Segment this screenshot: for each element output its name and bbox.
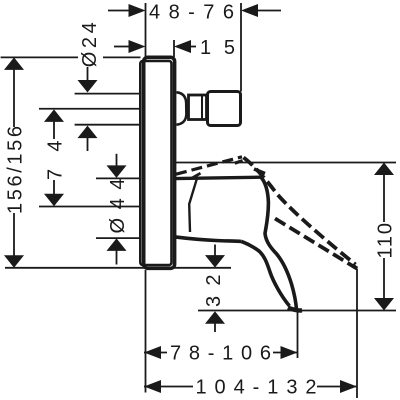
extension line 48-76 right (to cylinder top)	[240, 3, 242, 92]
svg-text:74: 74	[44, 141, 66, 181]
handle outer right edge sweeping to tip	[261, 177, 297, 309]
dashed handle (raised position)	[176, 157, 357, 269]
arrowheads 15	[129, 40, 192, 53]
extension line Ø24 bottom	[75, 124, 141, 126]
arrowheads 32	[205, 255, 225, 324]
extension line plate top to 156/156	[1, 56, 141, 58]
extension line bottom left (78-106 / 104-132)	[145, 270, 147, 393]
arrowheads Ø24	[78, 80, 98, 138]
handle bottom edge	[174, 237, 242, 242]
extension line 78-106 right	[297, 311, 299, 358]
dashed lever rising top edge	[176, 157, 242, 174]
spindle collar line	[201, 96, 203, 119]
stray dash at handle pivot	[192, 173, 201, 178]
stems 32	[214, 245, 216, 333]
stems 156/156	[13, 69, 15, 257]
dashed lever rising lower dash	[235, 161, 243, 164]
extension line 110 top	[176, 162, 396, 164]
svg-text:Ø44: Ø44	[107, 179, 129, 234]
svg-text:110: 110	[374, 223, 396, 259]
handle neck left edge	[189, 178, 197, 232]
dashed lever lower blade edge	[275, 219, 356, 269]
spindle big cylinder	[208, 92, 241, 126]
dimension line 104-132	[144, 386, 357, 388]
arrowheads 78-106	[144, 346, 298, 359]
extension line Ø24 top	[75, 93, 141, 95]
stems 74	[53, 120, 55, 196]
escutcheon back flange	[140, 61, 171, 265]
extension line 110 bottom / handle tip level	[198, 310, 396, 312]
dashed lever short dash at pivot	[254, 169, 265, 174]
arrowheads 74	[44, 109, 64, 206]
dashed lever tip	[353, 266, 358, 269]
svg-text:Ø24: Ø24	[79, 22, 101, 67]
handle neck	[174, 177, 302, 310]
extension line 48-76 left / plate back	[145, 3, 147, 57]
svg-text:156/156: 156/156	[4, 126, 26, 214]
arrowheads 156/156	[4, 57, 24, 267]
svg-text:32: 32	[203, 275, 225, 308]
escutcheon plate outer	[144, 57, 175, 268]
dimension line 78-106	[144, 352, 298, 354]
spindle bump	[177, 92, 187, 124]
arrowheads 110	[374, 163, 394, 311]
label 104-132 knockout	[193, 377, 317, 396]
arrowheads Ø44	[107, 165, 127, 251]
extension line 15 right	[173, 40, 175, 57]
stems 110	[383, 174, 385, 299]
extension line 104-132 right (from dashed tip)	[356, 269, 358, 399]
label Ø24 knockout	[78, 49, 103, 66]
svg-text:48-76: 48-76	[149, 1, 234, 23]
leader lines 15	[114, 46, 196, 48]
leader lines 48-76	[108, 10, 281, 12]
handle tip	[288, 308, 302, 311]
arrowheads 104-132	[144, 380, 357, 393]
handle inner edge to tip	[242, 242, 290, 307]
arrowheads 48-76	[129, 4, 259, 17]
extension line Ø44 bottom	[96, 237, 141, 239]
extension line 74 bottom (handle axis)	[39, 206, 141, 208]
spindle small cylinder	[189, 95, 207, 120]
extension line plate bottom / 32 top	[5, 267, 231, 269]
handle neck top edge	[175, 177, 262, 178]
extension line Ø44 top	[96, 177, 141, 179]
label 78-106 knockout	[167, 343, 273, 362]
stems Ø44	[116, 154, 118, 265]
stems Ø24	[87, 67, 89, 151]
extension line 74 top (spindle axis)	[39, 108, 141, 110]
svg-text:15: 15	[200, 37, 235, 59]
dashed lever upper blade edge	[244, 158, 356, 265]
